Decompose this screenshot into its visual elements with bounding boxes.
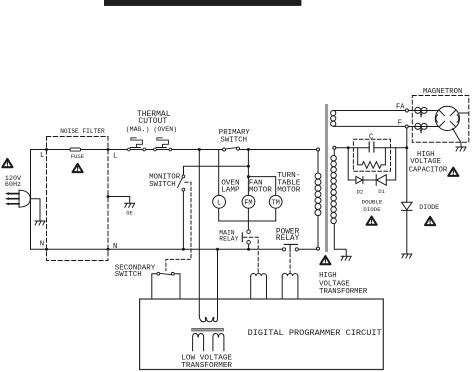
svg-text:VOLTAGE: VOLTAGE <box>410 158 441 166</box>
power relay coil <box>282 273 298 299</box>
wire: main relay to N <box>248 244 250 249</box>
svg-text:FUSE: FUSE <box>71 153 85 160</box>
main relay contact K1 <box>242 230 250 244</box>
wire: HV secondary top to diode line <box>336 147 407 149</box>
oven lamp L <box>213 195 226 208</box>
T1 filament winding <box>331 111 336 127</box>
magnetron V1 <box>408 106 469 146</box>
plug P1 <box>6 190 30 207</box>
svg-text:CUTOUT: CUTOUT <box>138 117 167 126</box>
wire N right of power relay <box>299 248 317 250</box>
junction L wire / filter box left <box>45 148 48 151</box>
wire L: primary switch to HV transformer primary top <box>239 149 316 151</box>
svg-text:MOTOR: MOTOR <box>249 187 272 195</box>
HV transformer T1 core <box>325 104 328 252</box>
svg-text:C: C <box>369 133 373 141</box>
junction N wire / monitor switch <box>182 248 185 251</box>
junction N wire / filter box right <box>107 248 110 251</box>
junction N wire / filter box left <box>45 248 48 251</box>
wire: plug ground tap <box>30 199 40 221</box>
primary switch S1 <box>223 147 240 151</box>
svg-text:F: F <box>398 119 402 127</box>
svg-text:HIGH: HIGH <box>319 272 337 280</box>
junction L wire / LVT feed <box>198 148 201 151</box>
terminal F <box>405 125 408 128</box>
capacitor C plates <box>369 142 374 152</box>
warning triangle (HV transformer) <box>320 256 330 264</box>
wire: TM branch <box>248 177 275 221</box>
dashed actuator main relay <box>244 237 259 273</box>
warning triangle (double diode) <box>367 217 377 225</box>
terminal FA <box>405 109 408 112</box>
svg-text:L: L <box>113 152 117 160</box>
main relay coil <box>251 274 267 299</box>
wire: GE ground tap on filter box <box>108 197 130 203</box>
wire FA <box>334 110 406 112</box>
diode line from F <box>406 128 408 253</box>
dashed link monitor-secondary switch <box>166 182 191 270</box>
svg-text:D2: D2 <box>357 188 364 195</box>
wire: FM branch / main relay feed <box>247 150 249 230</box>
junction N wire / LVT return <box>216 248 219 251</box>
ground (T1 secondary) <box>341 256 351 260</box>
junction HV node / double diode leg <box>347 146 350 149</box>
junction L wire / FM branch <box>247 148 250 151</box>
warning triangle (HV capacitor) <box>448 168 458 176</box>
svg-text:TRANSFORMER: TRANSFORMER <box>319 288 368 296</box>
LVT core <box>192 328 224 331</box>
wire: second rail y166 <box>184 166 249 175</box>
LVT secondary left <box>193 334 204 351</box>
svg-text:L: L <box>40 152 44 160</box>
junction monitor rail / FM branch <box>247 165 250 168</box>
svg-text:RELAY: RELAY <box>276 235 300 243</box>
ground GE <box>125 203 135 207</box>
svg-text:L: L <box>217 200 221 208</box>
fuse F1 <box>70 148 81 151</box>
wire L top: plug corner to primary switch <box>31 149 223 151</box>
svg-text:N: N <box>113 243 117 251</box>
wire: double diode left leg <box>348 148 356 180</box>
ground (plug) <box>35 221 45 225</box>
dashed actuator power relay <box>289 253 291 273</box>
warning triangle (diode) <box>425 217 435 225</box>
wire: motor bottom rail <box>219 220 276 222</box>
DPC box <box>140 299 384 370</box>
svg-text:DIGITAL PROGRAMMER CIRCUIT: DIGITAL PROGRAMMER CIRCUIT <box>248 328 382 338</box>
svg-text:TRANSFORMER: TRANSFORMER <box>181 362 232 370</box>
double diode D1 <box>376 148 396 186</box>
svg-text:DOUBLE: DOUBLE <box>362 198 383 205</box>
wire: LVT N leg <box>217 249 219 315</box>
HV capacitor dashed box <box>353 139 390 171</box>
ground (diode) <box>402 254 412 258</box>
svg-text:DIODE: DIODE <box>419 204 439 211</box>
junction L wire / filter box right <box>107 148 110 151</box>
turntable motor TM <box>269 195 282 208</box>
T1 primary winding <box>315 148 321 250</box>
svg-text:TM: TM <box>271 200 279 208</box>
monitor switch S2 <box>178 175 185 191</box>
secondary switch S3 <box>152 274 180 299</box>
warning triangle (fuse) <box>73 164 83 172</box>
thermal cutout (MAG.) <box>127 138 145 151</box>
svg-text:(MAG.) (OVEN): (MAG.) (OVEN) <box>126 126 177 133</box>
wire F <box>334 125 406 127</box>
svg-text:RELAY: RELAY <box>219 236 238 243</box>
svg-text:FM: FM <box>244 200 252 208</box>
fan motor FM <box>242 195 255 208</box>
svg-text:MOTOR: MOTOR <box>277 187 300 195</box>
top black bar <box>104 0 301 6</box>
junction GE ground tap <box>107 195 110 198</box>
wire: lamp branch <box>218 150 220 222</box>
diode D3 <box>402 202 413 210</box>
junction N wire / main relay <box>247 248 250 251</box>
wire: left vertical plug L/N <box>30 150 32 250</box>
wire: LVT L leg <box>198 150 200 316</box>
svg-text:SWITCH: SWITCH <box>149 181 176 189</box>
resistor (bleeder) with legs <box>358 148 386 169</box>
svg-text:SWITCH: SWITCH <box>220 137 247 145</box>
T1 secondary winding <box>331 146 346 256</box>
svg-text:SWITCH: SWITCH <box>115 271 142 279</box>
svg-text:FA: FA <box>396 103 405 111</box>
svg-text:D1: D1 <box>378 188 385 195</box>
svg-text:LAMP: LAMP <box>221 187 240 195</box>
svg-text:GE: GE <box>126 211 132 217</box>
double diode D2 <box>356 176 376 183</box>
warning triangle (line input) <box>2 159 12 167</box>
svg-text:MAGNETRON: MAGNETRON <box>423 88 462 96</box>
junction FM branch / TM branch <box>247 175 250 178</box>
noise filter dashed box <box>47 137 109 261</box>
svg-text:DIODE: DIODE <box>363 206 381 213</box>
magnetron dashed box <box>412 96 469 143</box>
power relay contact K2 <box>282 244 298 251</box>
svg-text:NOISE FILTER: NOISE FILTER <box>60 128 105 135</box>
LVT secondary right <box>213 334 224 351</box>
junction HV node / diode line <box>405 146 408 149</box>
svg-text:CAPACITOR: CAPACITOR <box>409 166 448 174</box>
wire N bottom <box>31 248 283 250</box>
thermal cutout (OVEN) <box>154 138 172 151</box>
svg-text:N: N <box>40 241 44 249</box>
svg-text:60Hz: 60Hz <box>5 181 21 189</box>
ground (magnetron) <box>456 147 466 151</box>
wire: monitor switch to N <box>182 191 184 249</box>
